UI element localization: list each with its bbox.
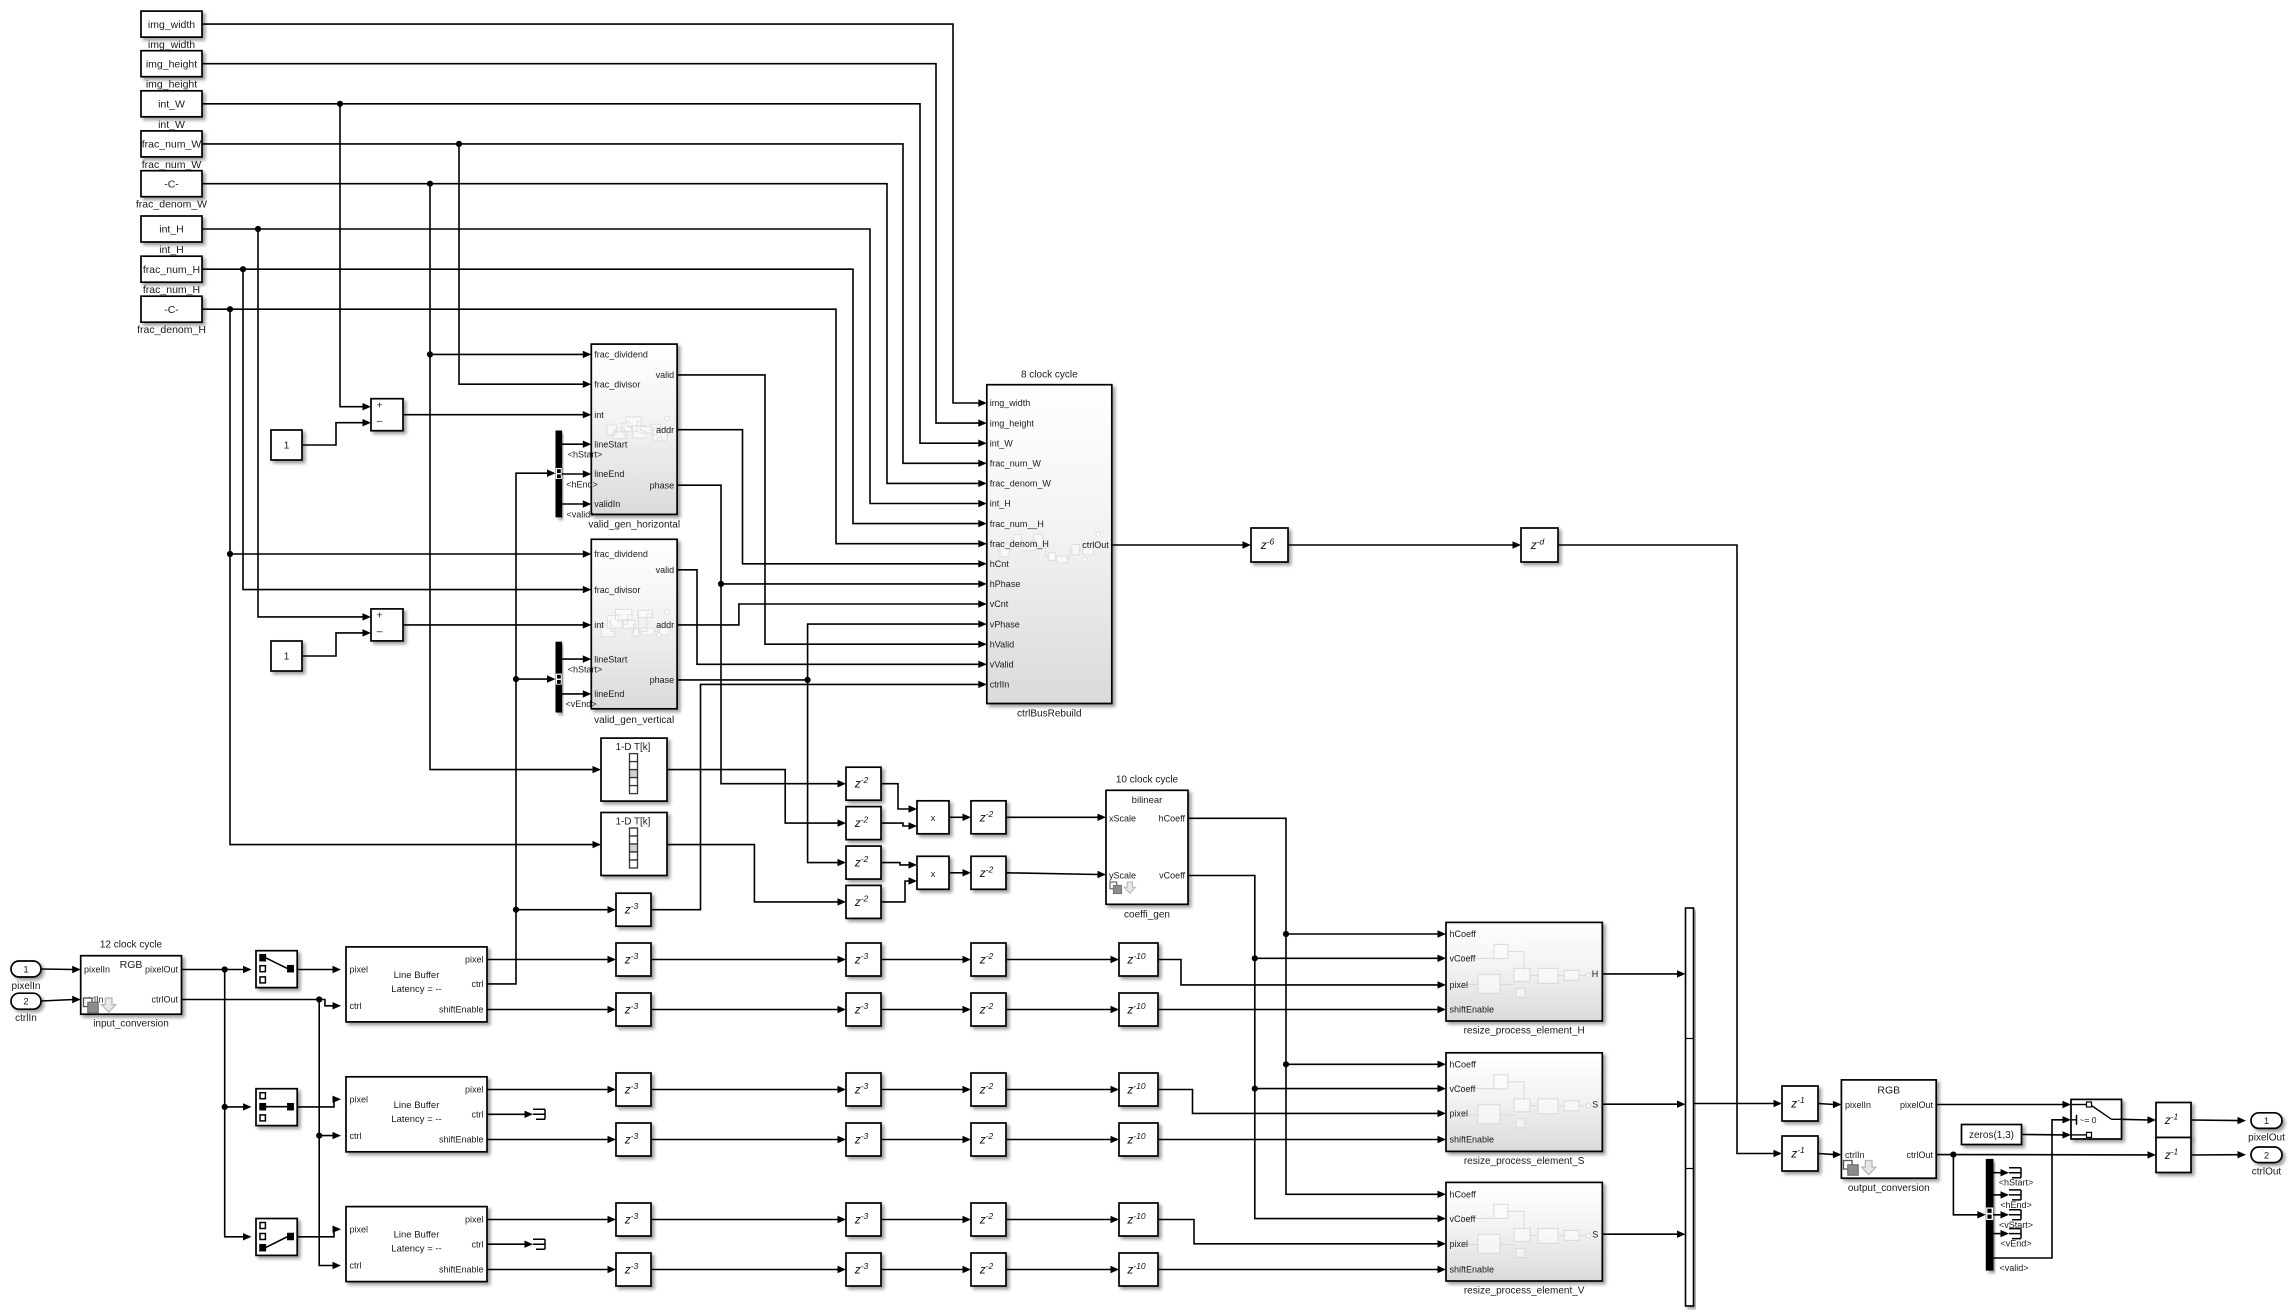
svg-text:<vEnd>: <vEnd> [2000,1239,2031,1249]
constant 1 (H) [271,641,302,671]
svg-text:resize_process_element_S: resize_process_element_S [1464,1156,1585,1167]
wire ctrl to z-3 [516,906,616,913]
wire selector2 to LB2 pixel [297,1096,341,1107]
svg-text:ctrlIn: ctrlIn [15,1013,37,1024]
junction int_W tap [337,101,343,107]
delay z-2 row2 [971,993,1006,1026]
source block img_height [141,51,202,91]
lookup table 1-D T[k] H [601,813,667,876]
wire ctrl to LB2 [319,1000,341,1140]
delay z-3 row2 a [616,993,651,1026]
svg-text:shiftEnable: shiftEnable [439,1135,484,1145]
wire row 2 z-3 to z-3 [651,1006,846,1013]
svg-text:vCoeff: vCoeff [1159,871,1185,881]
label <hStart> vertical [568,664,603,674]
wire row3 to resize S pixel [1158,1090,1446,1118]
wire pixelOut to switch [1936,1101,2071,1108]
svg-text:lineStart: lineStart [594,654,628,664]
svg-text:1: 1 [284,441,290,452]
selector R [256,951,297,988]
wire mult2 to z-2 [949,869,971,876]
svg-text:frac_num_W: frac_num_W [142,159,202,171]
wire row2 to resize H shiftEnable [1158,1006,1446,1013]
svg-text:RGB: RGB [1877,1085,1900,1097]
wire vCoeff trunk [1188,876,1446,1223]
wire frac_denom_W to 1-D lookup W [430,354,601,773]
label <vEnd> [565,699,596,709]
svg-text:–: – [377,415,383,427]
subsystem ctrlBusRebuild [987,370,1112,720]
delay z-3 row6 b [846,1253,881,1286]
svg-text:x: x [931,813,936,824]
label <hEnd> [2000,1200,2032,1210]
subsystem input_conversion [81,940,182,1030]
wire frac_denom_H to frac_dividend vertical [230,309,591,558]
svg-text:shiftEnable: shiftEnable [1450,1265,1495,1275]
wire bus to terminator <hStart> [1993,1169,2009,1176]
wire LB row 6 to z-3 [487,1266,616,1273]
wire frac_denom_W to frac_dividend [430,184,591,358]
svg-text:vCnt: vCnt [990,599,1009,609]
wire LB2 ctrl [487,1111,533,1118]
junction frac_denom_H tap [227,306,233,312]
source block int_W [141,91,202,131]
svg-text:vCoeff: vCoeff [1450,954,1476,964]
wire inport2 to ctrlIn [41,996,81,1003]
wire constant2 to Add2 minus [302,629,371,656]
svg-text:ctrl: ctrl [350,1131,362,1141]
svg-text:frac_divisor: frac_divisor [594,585,640,595]
wire LB row 1 to z-3 [487,956,616,963]
svg-text:10 clock cycle: 10 clock cycle [1116,775,1179,786]
delay z-2 row5 [971,1203,1006,1236]
svg-text:–: – [377,625,383,637]
junction ctrl riser z3 [513,907,519,913]
svg-text:frac_divisor: frac_divisor [594,379,640,389]
wire resize H to mux [1602,970,1685,977]
svg-text:phase: phase [650,480,675,490]
wire lookup H to z-2 delay 4 [667,845,846,906]
wire vEnd to lineEnd vertical [562,690,592,697]
svg-text:Line Buffer: Line Buffer [394,1100,440,1111]
constant 1 (W) [271,430,302,460]
svg-text:<hStart>: <hStart> [1999,1178,2034,1188]
svg-text:shiftEnable: shiftEnable [439,1005,484,1015]
wire LB row 5 to z-3 [487,1216,616,1223]
wire row 6 z-3 to z-2 [881,1266,971,1273]
terminator <hEnd> [2009,1190,2021,1200]
wire row 2 z-2 to z-10 [1006,1006,1119,1013]
wire frac_num_W to ctrlBusRebuild [202,144,987,467]
subsystem resize_process_element_S [1446,1053,1602,1167]
delay z-3 row5 b [846,1203,881,1236]
delay z-3 row3 a [616,1073,651,1106]
subsystem valid_gen_vertical [591,539,677,726]
svg-text:<hEnd>: <hEnd> [2000,1200,2032,1210]
svg-text:shiftEnable: shiftEnable [439,1265,484,1275]
wire LB row 2 to z-3 [487,1006,616,1013]
svg-text:coeffi_gen: coeffi_gen [1124,910,1170,921]
delay z-3 row6 a [616,1253,651,1286]
svg-text:valid_gen_horizontal: valid_gen_horizontal [588,519,680,530]
wire z-d to z-1 ctrl [1558,545,1782,1157]
svg-text:S: S [1592,1099,1598,1109]
multiplier x1 [917,801,949,834]
svg-text:<hStart>: <hStart> [568,664,603,674]
delay z-d [1521,528,1558,562]
svg-text:H: H [1592,969,1599,979]
svg-text:ctrlIn: ctrlIn [1845,1150,1865,1160]
svg-text:output_conversion: output_conversion [1848,1183,1930,1194]
svg-text:pixel: pixel [350,965,369,975]
wire bus to terminator <vStart> [1993,1211,2009,1218]
wire ctrl to LB3 [319,1136,341,1270]
wire h addr to hCnt [677,430,987,568]
delay z-2 xscale [971,801,1006,834]
wire pixel to selector2 [225,970,252,1111]
bus selector ctrl signals [1986,1159,1993,1270]
svg-text:frac_num_W: frac_num_W [990,459,1042,469]
wire frac_num_H to ctrlBusRebuild [202,269,987,527]
terminator 2 [533,1239,545,1249]
svg-text:hPhase: hPhase [990,579,1021,589]
junction hCoeff H [1283,931,1289,937]
delay z-2 row1 [971,943,1006,976]
terminator <hStart> [2009,1168,2021,1178]
svg-text:ctrlBusRebuild: ctrlBusRebuild [1017,709,1081,720]
svg-text:valid: valid [656,565,675,575]
svg-text:xScale: xScale [1109,814,1136,824]
delay z-10 row3 [1119,1073,1158,1106]
junction frac_denom_W to lookup [427,351,433,357]
wire int_W to Add1 plus [340,104,371,411]
source block frac_num_H [141,256,202,296]
svg-text:hCoeff: hCoeff [1159,814,1186,824]
svg-text:pixelOut: pixelOut [145,965,179,975]
svg-text:ctrlOut: ctrlOut [1082,540,1109,550]
wire z-2 4 to mult2 [881,877,917,902]
svg-text:pixel: pixel [465,1085,484,1095]
wire z-1 to ctrlIn [1818,1151,1841,1158]
svg-text:frac_num_H: frac_num_H [143,284,200,296]
wire Add2 to int vertical [403,621,591,628]
junction v phase [805,677,811,683]
delay z-1 ctrl [1782,1136,1818,1171]
junction vCoeff H [1252,955,1258,961]
label <vStart> [1999,1220,2033,1230]
svg-text:S: S [1592,1229,1598,1239]
svg-text:img_height: img_height [146,58,197,70]
svg-text:img_height: img_height [990,418,1035,428]
wire pixel to selector1 [182,966,252,973]
wire row 1 z-3 to z-2 [881,956,971,963]
wire resize S to mux [1602,1101,1685,1108]
source block img_width [141,11,202,51]
svg-text:pixel: pixel [350,1095,369,1105]
Line Buffer 3 [346,1207,487,1282]
svg-text:pixelOut: pixelOut [2248,1132,2285,1143]
wire frac_denom_W to ctrlBusRebuild [202,184,987,487]
junction ctrlOut [1950,1152,1956,1158]
delay z-6 [1251,528,1288,562]
output port 2 ctrlOut [2251,1147,2282,1178]
svg-text:pixel: pixel [465,1215,484,1225]
junction frac_num_W tap [456,141,462,147]
svg-text:shiftEnable: shiftEnable [1450,1005,1495,1015]
label <hStart> [568,450,603,460]
svg-text:<valid>: <valid> [566,509,595,519]
wire LB3 ctrl [487,1241,533,1248]
wire hCoeff to resize S [1286,1061,1446,1068]
delay z-3 row4 a [616,1123,651,1156]
delay z-3 row1 a [616,943,651,976]
wire ctrlOut to z-1 out [1936,1151,2156,1158]
junction h phase [718,581,724,587]
svg-text:frac_dividend: frac_dividend [594,350,648,360]
svg-text:<hEnd>: <hEnd> [566,479,598,489]
wire h valid to hValid [677,375,987,648]
junction pixel 2 [222,1104,228,1110]
wire row 1 z-3 to z-3 [651,956,846,963]
svg-text:8 clock cycle: 8 clock cycle [1021,370,1078,381]
svg-text:ctrlOut: ctrlOut [151,995,178,1005]
input port 2 ctrlIn [11,993,41,1024]
wire switch to z-1 [2122,1116,2157,1123]
svg-text:pixel: pixel [1450,1239,1469,1249]
svg-text:Latency = --: Latency = -- [391,1114,441,1125]
wire selector1 to LB1 pixel [297,966,341,973]
wire hStart to lineStart vertical [562,655,592,662]
wire row 5 z-3 to z-2 [881,1216,971,1223]
svg-text:addr: addr [656,620,674,630]
svg-text:pixel: pixel [1450,980,1469,990]
wire row 4 z-2 to z-10 [1006,1136,1119,1143]
label <hStart> [1999,1178,2034,1188]
svg-text:int_W: int_W [158,119,185,131]
svg-text:resize_process_element_H: resize_process_element_H [1464,1026,1585,1037]
wire z-6 to z-d [1288,541,1521,548]
delay z-1 out ctrl [2156,1138,2191,1173]
svg-text:hCoeff: hCoeff [1450,1190,1477,1200]
wire pixel to selector3 [225,1107,252,1241]
wire ctrlOut to z-6 [1112,541,1251,548]
wire row 5 z-2 to z-10 [1006,1216,1119,1223]
svg-text:pixelIn: pixelIn [1845,1100,1871,1110]
svg-text:bilinear: bilinear [1132,795,1163,806]
wire LB row 3 to z-3 [487,1086,616,1093]
svg-text:phase: phase [650,675,675,685]
junction pixel [222,966,228,972]
label <valid> [566,509,595,519]
svg-text:<valid>: <valid> [1999,1263,2028,1273]
wire z-1 to outport 2 [2191,1151,2246,1158]
svg-text:input_conversion: input_conversion [93,1019,169,1030]
svg-text:img_width: img_width [148,19,195,31]
svg-text:1: 1 [284,652,290,663]
svg-text:int: int [594,620,604,630]
Line Buffer 1 [346,947,487,1022]
terminator <vStart> [2009,1210,2021,1220]
svg-text:pixel: pixel [1450,1109,1469,1119]
wire ctrl to bus selector v [516,675,556,682]
svg-text:addr: addr [656,425,674,435]
sum block Add2 [371,609,403,641]
wire bus to terminator <vEnd> [1993,1230,2009,1237]
junction frac_denom_H to lookup [227,551,233,557]
delay z-2 phase 4 [846,885,881,918]
svg-text:zeros(1,3): zeros(1,3) [1969,1130,2014,1141]
wire LB row 4 to z-3 [487,1136,616,1143]
wire row6 to resize V shiftEnable [1158,1266,1446,1273]
svg-text:~= 0: ~= 0 [2080,1115,2097,1125]
delay z-3 row2 b [846,993,881,1026]
wire h phase to hPhase [677,485,987,587]
wire constant1 to Add1 minus [302,419,371,445]
wire v addr to vCnt [677,600,987,625]
subsystem output_conversion [1841,1080,1936,1194]
mux bar [1686,908,1694,1306]
wire z-1 to pixelIn [1818,1101,1841,1108]
svg-text:hCoeff: hCoeff [1450,929,1477,939]
wire hEnd to lineEnd [562,470,592,477]
svg-text:Latency = --: Latency = -- [391,984,441,995]
wire hCoeff trunk [1188,818,1446,1198]
delay z-10 row2 [1119,993,1158,1026]
delay z-1 pixel [1782,1086,1818,1121]
svg-text:pixel: pixel [350,1224,369,1234]
wire ctrlOut to bus selector [1953,1155,1985,1219]
wire frac_denom_H to ctrlBusRebuild [202,309,987,547]
multiplier x2 [917,856,949,889]
output port 1 pixelOut [2248,1113,2285,1144]
svg-text:ctrl: ctrl [472,979,484,989]
wire row4 to resize S shiftEnable [1158,1136,1446,1143]
wire row 1 z-2 to z-10 [1006,956,1119,963]
terminator <vEnd> [2009,1229,2021,1239]
wire v phase to z-2 delay 3 [808,680,846,866]
delay z-10 row6 [1119,1253,1158,1286]
wire z-2 2 to mult1 [881,822,917,829]
svg-text:2: 2 [23,997,28,1008]
delay z-3 row3 b [846,1073,881,1106]
wire inport1 to pixelIn [41,966,81,973]
svg-text:Line Buffer: Line Buffer [394,1230,440,1241]
svg-text:hCoeff: hCoeff [1450,1060,1477,1070]
svg-text:+: + [376,399,382,411]
wire hCoeff to resize H [1286,930,1446,937]
subsystem coeffi_gen [1106,775,1188,921]
wire lookup W to z-2 delay 2 [667,770,846,827]
wire h phase to z-2 delay 1 [721,584,846,788]
svg-text:shiftEnable: shiftEnable [1450,1135,1495,1145]
wire bus to terminator <hEnd> [1993,1191,2009,1198]
svg-text:1: 1 [2264,1116,2269,1127]
bus selector (hStart hEnd valid) [556,431,562,517]
delay z-10 row4 [1119,1123,1158,1156]
source block frac_denom_W [136,171,207,211]
delay z-2 phase 3 [846,846,881,879]
svg-text:x: x [931,869,936,880]
svg-text:<vEnd>: <vEnd> [565,699,596,709]
wire zeros to switch [2022,1131,2072,1138]
wire frac_num_H to frac_divisor vertical [243,269,591,593]
source block frac_num_W [141,131,202,171]
wire int_H to Add2 plus [258,229,371,621]
subsystem resize_process_element_V [1446,1182,1602,1296]
svg-text:frac_denom_H: frac_denom_H [137,324,206,336]
delay z-10 row5 [1119,1203,1158,1236]
svg-text:lineEnd: lineEnd [594,469,624,479]
bus selector (hStart vEnd) [556,642,562,712]
svg-text:+: + [376,610,382,622]
svg-text:vCoeff: vCoeff [1450,1084,1476,1094]
svg-text:ctrl: ctrl [350,1001,362,1011]
wire row 3 z-3 to z-3 [651,1086,846,1093]
wire resize V to mux [1602,1231,1685,1238]
wire z-1 to outport 1 [2191,1117,2246,1124]
wire row 3 z-3 to z-2 [881,1086,971,1093]
wire ctrl to bus selector h [487,470,556,984]
wire row5 to resize V pixel [1158,1220,1446,1248]
delay z-2 row3 [971,1073,1006,1106]
wire v phase to vPhase [677,620,987,680]
delay z-2 row4 [971,1123,1006,1156]
svg-text:2: 2 [2264,1150,2269,1161]
wire z-2 3 to mult2 [881,861,917,868]
svg-text:ctrlOut: ctrlOut [1906,1150,1933,1160]
svg-text:img_width: img_width [990,398,1031,408]
delay z-2 yscale [971,856,1006,889]
svg-text:resize_process_element_V: resize_process_element_V [1464,1286,1585,1297]
wire vCoeff to resize H [1255,955,1446,962]
wire frac_denom_H to 1-D lookup H [230,554,601,848]
junction frac_num_H tap [240,266,246,272]
subsystem resize_process_element_H [1446,922,1602,1036]
wire ctrl to LB1 [182,1000,342,1010]
wire img_width to ctrlBusRebuild [202,24,987,407]
svg-text:frac_num__H: frac_num__H [990,519,1044,529]
junction int_H tap [255,226,261,232]
svg-text:valid: valid [656,370,675,380]
label <vEnd> [2000,1239,2031,1249]
sum block Add1 [371,399,403,431]
delay z-1 out pixel [2156,1103,2191,1138]
wire row 5 z-3 to z-3 [651,1216,846,1223]
lookup table 1-D T[k] W [601,738,667,801]
svg-text:Latency = --: Latency = -- [391,1244,441,1255]
svg-text:pixelIn: pixelIn [12,981,41,992]
wire row 3 z-2 to z-10 [1006,1086,1119,1093]
delay z-3 row5 a [616,1203,651,1236]
svg-text:int_W: int_W [990,438,1014,448]
wire vCoeff to resize S [1255,1085,1446,1092]
delay z-10 row1 [1119,943,1158,976]
svg-text:1: 1 [23,965,28,976]
svg-text:<hStart>: <hStart> [568,450,603,460]
svg-text:ctrl: ctrl [350,1261,362,1271]
svg-text:pixelOut: pixelOut [1900,1100,1934,1110]
wire mult1 to z-2 [949,814,971,821]
svg-text:frac_num_W: frac_num_W [142,139,202,151]
selector G [256,1089,297,1126]
wire img_height to ctrlBusRebuild [202,64,987,427]
svg-text:RGB: RGB [120,959,143,971]
svg-text:img_height: img_height [146,79,197,91]
Line Buffer 2 [346,1077,487,1152]
svg-text:int_H: int_H [159,244,184,256]
svg-text:vCoeff: vCoeff [1450,1214,1476,1224]
svg-text:pixel: pixel [465,955,484,965]
